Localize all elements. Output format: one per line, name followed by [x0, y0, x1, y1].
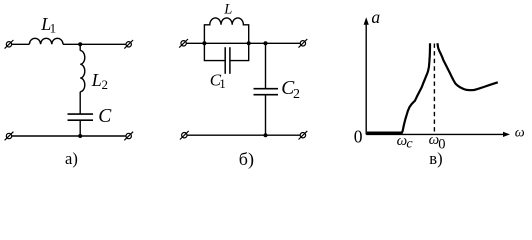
y axis arrowhead — [364, 17, 369, 25]
inductor L branch — [204, 18, 248, 43]
bottom rail (b) — [187, 134, 300, 136]
svg-text:2: 2 — [293, 87, 300, 102]
svg-text:c: c — [406, 137, 413, 152]
wire top (b) — [186, 42, 300, 44]
wire C2 upper — [265, 43, 267, 88]
svg-text:ω: ω — [515, 126, 525, 141]
svg-text:в): в) — [429, 149, 442, 168]
svg-text:а): а) — [65, 149, 78, 168]
terminal top-left (a) — [5, 40, 14, 49]
x axis — [366, 133, 504, 135]
terminal bottom-left (a) — [5, 132, 14, 141]
svg-text:L: L — [223, 1, 232, 17]
terminal top-right (b) — [299, 39, 308, 48]
wire to L2 — [79, 44, 81, 50]
svg-text:0: 0 — [354, 126, 363, 146]
capacitor C2 — [254, 89, 279, 95]
curve left branch — [401, 43, 430, 134]
dashed asymptote at omega0 — [433, 44, 435, 134]
node C2 tap — [264, 41, 268, 45]
node right of parallel block — [247, 41, 251, 45]
svg-text:C: C — [98, 106, 112, 127]
capacitor C1 branch wires — [204, 43, 248, 60]
node junction bottom (a) — [78, 134, 82, 138]
svg-text:a: a — [371, 7, 380, 27]
terminal top-right (a) — [124, 40, 133, 49]
svg-text:б): б) — [239, 149, 254, 170]
inductor L2 — [80, 51, 85, 92]
capacitor C — [68, 114, 94, 120]
svg-text:L: L — [91, 70, 102, 90]
x axis arrowhead — [503, 132, 510, 137]
svg-text:2: 2 — [102, 77, 109, 92]
wire C to rail — [79, 120, 81, 136]
terminal top-left (b) — [179, 39, 188, 48]
y axis — [365, 22, 367, 134]
capacitor C1 plates — [225, 47, 230, 74]
curve right branch — [437, 43, 497, 90]
node junction top (a) — [78, 42, 82, 46]
node left of parallel block — [202, 41, 206, 45]
terminal bottom-right (a) — [124, 132, 133, 141]
terminal bottom-right (b) — [299, 131, 308, 140]
svg-text:1: 1 — [219, 76, 226, 91]
bottom rail (a) — [12, 135, 126, 137]
wire L2 to C — [79, 92, 81, 114]
wire C2 lower — [265, 95, 267, 136]
curve flat on axis — [367, 131, 402, 134]
wire top-right (a) — [63, 43, 126, 45]
wire top-left (a) — [12, 43, 30, 45]
svg-text:1: 1 — [50, 21, 57, 36]
inductor L1 — [29, 38, 63, 44]
terminal bottom-left (b) — [180, 131, 189, 140]
node junction bottom (b) — [264, 133, 268, 137]
